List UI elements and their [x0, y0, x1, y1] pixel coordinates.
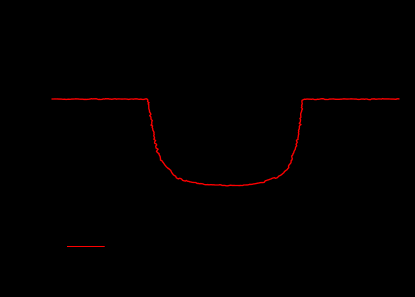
light curve (red transit curve) [52, 99, 400, 186]
legend key line [67, 246, 105, 248]
